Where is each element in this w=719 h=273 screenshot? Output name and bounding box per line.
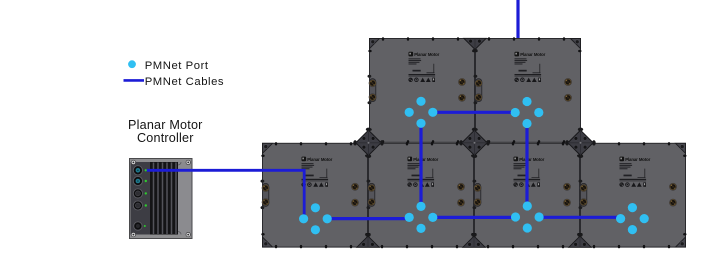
svg-text:PMNet Port: PMNet Port <box>145 60 209 72</box>
svg-text:PMNet Cables: PMNet Cables <box>145 76 224 88</box>
svg-text:Controller: Controller <box>137 131 194 145</box>
